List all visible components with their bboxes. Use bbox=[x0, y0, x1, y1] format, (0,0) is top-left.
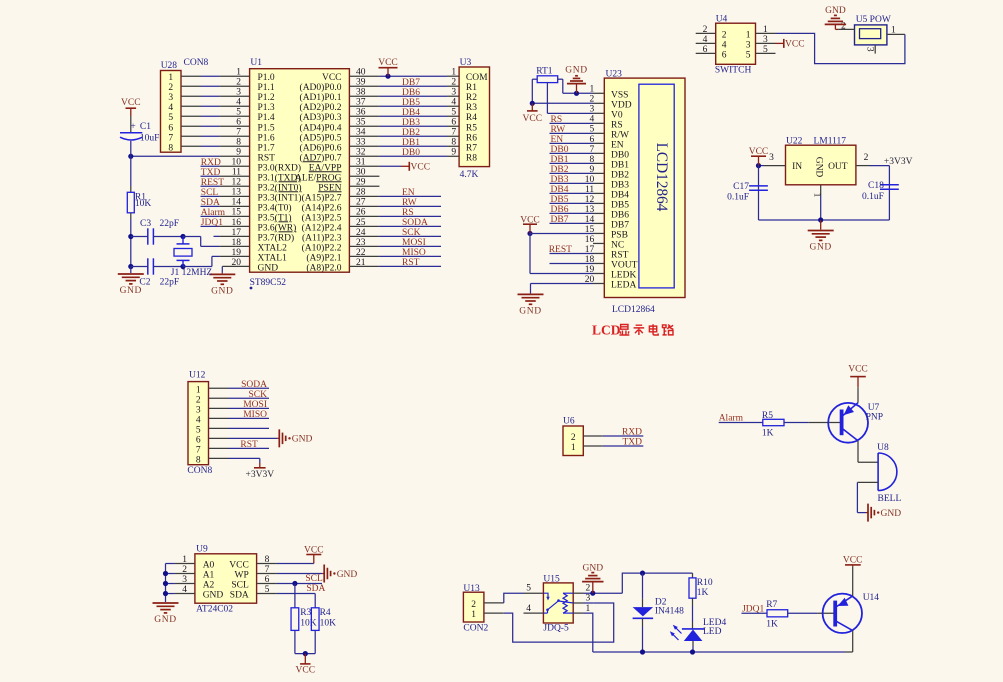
svg-text:C17: C17 bbox=[733, 182, 749, 192]
svg-text:C1: C1 bbox=[140, 122, 151, 132]
svg-text:1K: 1K bbox=[697, 588, 709, 598]
svg-text:7: 7 bbox=[236, 128, 241, 138]
svg-text:J1 12MHZ: J1 12MHZ bbox=[171, 268, 213, 278]
svg-text:SODA: SODA bbox=[241, 380, 267, 390]
svg-text:VOUT: VOUT bbox=[611, 260, 638, 270]
svg-text:GND: GND bbox=[154, 615, 176, 625]
svg-text:P1.2: P1.2 bbox=[258, 93, 275, 103]
svg-text:2: 2 bbox=[471, 600, 476, 610]
svg-text:RST: RST bbox=[402, 258, 420, 268]
svg-text:3: 3 bbox=[769, 153, 774, 163]
svg-text:PNP: PNP bbox=[866, 413, 883, 423]
svg-text:2: 2 bbox=[722, 30, 727, 40]
svg-text:P1.7: P1.7 bbox=[258, 143, 275, 153]
svg-text:2: 2 bbox=[451, 78, 456, 88]
svg-text:V0: V0 bbox=[611, 110, 623, 120]
svg-text:MOSI: MOSI bbox=[243, 400, 267, 410]
svg-text:GND: GND bbox=[258, 263, 279, 273]
svg-text:U1: U1 bbox=[250, 58, 262, 68]
svg-text:TXD: TXD bbox=[622, 438, 642, 448]
svg-text:U3: U3 bbox=[460, 58, 472, 68]
svg-text:6: 6 bbox=[236, 118, 241, 128]
svg-text:(AD2)P0.2: (AD2)P0.2 bbox=[300, 102, 342, 113]
svg-text:2: 2 bbox=[168, 83, 173, 93]
svg-text:IN: IN bbox=[792, 162, 802, 172]
svg-text:P1.6: P1.6 bbox=[258, 133, 275, 143]
svg-text:U14: U14 bbox=[863, 593, 880, 603]
svg-text:3: 3 bbox=[746, 40, 751, 50]
svg-text:(A10)P2.2: (A10)P2.2 bbox=[302, 242, 342, 253]
svg-text:22pF: 22pF bbox=[160, 278, 180, 288]
svg-text:DB5: DB5 bbox=[551, 195, 569, 205]
svg-text:JDQ1: JDQ1 bbox=[201, 218, 223, 228]
svg-text:5: 5 bbox=[236, 108, 241, 118]
svg-text:2: 2 bbox=[236, 78, 241, 88]
svg-text:P3.0(RXD): P3.0(RXD) bbox=[258, 162, 302, 173]
svg-text:DB0: DB0 bbox=[402, 148, 420, 158]
svg-text:P3.4(T0): P3.4(T0) bbox=[258, 202, 292, 213]
svg-text:OUT: OUT bbox=[828, 162, 848, 172]
svg-text:3: 3 bbox=[236, 88, 241, 98]
svg-text:VSS: VSS bbox=[611, 90, 628, 100]
svg-text:1: 1 bbox=[586, 604, 591, 614]
svg-text:GND: GND bbox=[292, 435, 313, 445]
svg-text:GND: GND bbox=[583, 563, 604, 573]
svg-text:RS: RS bbox=[611, 120, 623, 130]
svg-text:SCL: SCL bbox=[305, 574, 323, 584]
svg-text:4: 4 bbox=[236, 98, 241, 108]
svg-text:MISO: MISO bbox=[402, 248, 426, 258]
svg-text:DB2: DB2 bbox=[402, 128, 420, 138]
svg-text:EN: EN bbox=[611, 140, 624, 150]
svg-text:(A12)P2.4: (A12)P2.4 bbox=[302, 222, 342, 233]
svg-text:DB7: DB7 bbox=[611, 220, 629, 230]
svg-text:A0: A0 bbox=[203, 561, 215, 571]
svg-text:DB6: DB6 bbox=[611, 210, 629, 220]
svg-text:0.1uF: 0.1uF bbox=[727, 193, 749, 203]
svg-text:DB3: DB3 bbox=[551, 175, 569, 185]
svg-text:U6: U6 bbox=[563, 417, 575, 427]
svg-text:JDQ-5: JDQ-5 bbox=[543, 624, 569, 634]
svg-text:P3.6(WR): P3.6(WR) bbox=[258, 222, 297, 233]
svg-text:CON8: CON8 bbox=[184, 58, 209, 68]
svg-text:MOSI: MOSI bbox=[402, 238, 426, 248]
svg-text:R5: R5 bbox=[466, 123, 477, 133]
svg-text:(A11)P2.3: (A11)P2.3 bbox=[302, 232, 342, 243]
svg-text:4: 4 bbox=[168, 103, 173, 113]
svg-text:U15: U15 bbox=[543, 574, 560, 584]
svg-text:NC: NC bbox=[611, 240, 624, 250]
svg-text:(AD3)P0.3: (AD3)P0.3 bbox=[300, 112, 342, 123]
svg-text:U9: U9 bbox=[196, 545, 208, 555]
svg-text:SDA: SDA bbox=[306, 584, 325, 594]
svg-text:1: 1 bbox=[168, 73, 173, 83]
svg-text:8: 8 bbox=[451, 138, 456, 148]
svg-text:4: 4 bbox=[703, 35, 708, 45]
svg-text:LM1117: LM1117 bbox=[814, 136, 847, 146]
svg-text:U5 POW: U5 POW bbox=[856, 15, 891, 25]
svg-text:R1: R1 bbox=[466, 83, 477, 93]
svg-text:LEDK: LEDK bbox=[611, 270, 636, 280]
svg-text:LED: LED bbox=[703, 627, 722, 637]
svg-text:P1.3: P1.3 bbox=[258, 103, 275, 113]
svg-text:P3.3(INT1): P3.3(INT1) bbox=[258, 192, 302, 203]
svg-text:DB6: DB6 bbox=[402, 88, 420, 98]
svg-text:16: 16 bbox=[585, 235, 595, 245]
svg-text:REST: REST bbox=[201, 178, 224, 188]
svg-text:REST: REST bbox=[549, 245, 572, 255]
svg-text:(AD6)P0.6: (AD6)P0.6 bbox=[300, 142, 342, 153]
svg-text:(A15)P2.7: (A15)P2.7 bbox=[302, 192, 342, 203]
svg-text:8: 8 bbox=[168, 143, 173, 153]
svg-text:5: 5 bbox=[746, 50, 751, 60]
svg-text:DB2: DB2 bbox=[611, 170, 629, 180]
svg-text:8: 8 bbox=[196, 455, 201, 465]
svg-text:1: 1 bbox=[891, 25, 896, 35]
svg-text:7: 7 bbox=[168, 133, 173, 143]
svg-text:A1: A1 bbox=[203, 571, 215, 581]
svg-text:RXD: RXD bbox=[201, 158, 221, 168]
svg-text:MISO: MISO bbox=[243, 410, 267, 420]
svg-text:P1.5: P1.5 bbox=[258, 123, 275, 133]
svg-text:(A13)P2.5: (A13)P2.5 bbox=[302, 212, 342, 223]
svg-text:U7: U7 bbox=[868, 403, 880, 413]
svg-text:R4: R4 bbox=[466, 113, 477, 123]
svg-text:22pF: 22pF bbox=[160, 219, 180, 229]
svg-text:U22: U22 bbox=[786, 136, 803, 146]
svg-text:7: 7 bbox=[451, 128, 456, 138]
svg-text:GND: GND bbox=[565, 66, 587, 76]
svg-text:1: 1 bbox=[746, 30, 751, 40]
svg-text:10K: 10K bbox=[300, 619, 317, 629]
svg-text:VCC: VCC bbox=[296, 665, 316, 675]
svg-text:2: 2 bbox=[586, 583, 591, 593]
svg-text:SDA: SDA bbox=[201, 198, 220, 208]
svg-text:SODA: SODA bbox=[402, 218, 428, 228]
svg-text:1: 1 bbox=[236, 68, 241, 78]
svg-text:1: 1 bbox=[471, 610, 476, 620]
svg-text:SCL: SCL bbox=[231, 581, 249, 591]
svg-text:9: 9 bbox=[451, 148, 456, 158]
svg-text:U4: U4 bbox=[716, 15, 728, 25]
svg-text:SCK: SCK bbox=[402, 228, 421, 238]
svg-text:EN: EN bbox=[551, 135, 564, 145]
svg-text:R10: R10 bbox=[697, 578, 713, 588]
svg-text:4: 4 bbox=[722, 40, 727, 50]
svg-text:DB6: DB6 bbox=[551, 205, 569, 215]
svg-text:R8: R8 bbox=[466, 153, 477, 163]
svg-text:6: 6 bbox=[703, 45, 708, 55]
svg-text:VCC: VCC bbox=[520, 215, 540, 225]
svg-text:1: 1 bbox=[571, 443, 576, 453]
svg-text:RS: RS bbox=[551, 115, 563, 125]
svg-text:4: 4 bbox=[196, 415, 201, 425]
svg-text:DB1: DB1 bbox=[402, 138, 420, 148]
svg-text:8: 8 bbox=[236, 138, 241, 148]
svg-text:U8: U8 bbox=[877, 443, 889, 453]
svg-text:VCC: VCC bbox=[304, 545, 324, 555]
svg-text:RW: RW bbox=[551, 125, 566, 135]
svg-text:BELL: BELL bbox=[878, 494, 902, 504]
svg-text:XTAL1: XTAL1 bbox=[258, 253, 288, 263]
svg-text:PSEN: PSEN bbox=[318, 183, 341, 193]
svg-text:C2: C2 bbox=[139, 278, 150, 288]
svg-text:DB0: DB0 bbox=[611, 150, 629, 160]
svg-text:GND: GND bbox=[203, 591, 224, 601]
svg-text:1K: 1K bbox=[766, 620, 778, 630]
svg-text:R3: R3 bbox=[300, 608, 311, 618]
svg-text:R6: R6 bbox=[466, 133, 477, 143]
svg-text:AT24C02: AT24C02 bbox=[196, 604, 233, 614]
svg-text:P1.0: P1.0 bbox=[258, 73, 275, 83]
svg-text:EN: EN bbox=[402, 188, 415, 198]
svg-text:TXD: TXD bbox=[201, 168, 221, 178]
svg-text:DB5: DB5 bbox=[611, 200, 629, 210]
svg-text:5: 5 bbox=[763, 45, 768, 55]
svg-text:RW: RW bbox=[402, 198, 417, 208]
svg-text:3: 3 bbox=[763, 35, 768, 45]
svg-text:PSB: PSB bbox=[611, 230, 628, 240]
svg-text:3: 3 bbox=[586, 594, 591, 604]
svg-text:10K: 10K bbox=[135, 199, 152, 209]
svg-text:1K: 1K bbox=[762, 429, 774, 439]
svg-text:IN4148: IN4148 bbox=[655, 606, 684, 616]
svg-text:RS: RS bbox=[402, 208, 414, 218]
svg-text:4: 4 bbox=[451, 98, 456, 108]
svg-text:0.1uF: 0.1uF bbox=[862, 192, 884, 202]
svg-text:VCC: VCC bbox=[523, 114, 543, 124]
svg-text:XTAL2: XTAL2 bbox=[258, 243, 288, 253]
svg-text:LCD12864: LCD12864 bbox=[612, 305, 655, 315]
svg-text:5: 5 bbox=[196, 425, 201, 435]
svg-text:2: 2 bbox=[571, 433, 576, 443]
svg-text:+3V3V: +3V3V bbox=[246, 470, 275, 480]
svg-text:WP: WP bbox=[235, 571, 249, 581]
svg-text:GND: GND bbox=[120, 286, 142, 296]
svg-text:ST89C52: ST89C52 bbox=[250, 278, 287, 288]
svg-text:DB7: DB7 bbox=[402, 78, 420, 88]
svg-text:COM: COM bbox=[466, 73, 488, 83]
svg-text:R7: R7 bbox=[466, 143, 477, 153]
svg-text:VCC: VCC bbox=[785, 40, 805, 50]
svg-text:RST: RST bbox=[611, 250, 629, 260]
svg-text:C18: C18 bbox=[868, 181, 884, 191]
svg-text:(A9)P2.1: (A9)P2.1 bbox=[306, 252, 341, 263]
svg-text:DB5: DB5 bbox=[402, 98, 420, 108]
svg-text:1: 1 bbox=[451, 68, 456, 78]
svg-text:3: 3 bbox=[168, 93, 173, 103]
svg-text:R2: R2 bbox=[466, 93, 477, 103]
svg-text:U23: U23 bbox=[606, 70, 623, 80]
svg-text:2: 2 bbox=[864, 153, 869, 163]
svg-text:VCC: VCC bbox=[843, 555, 863, 565]
svg-text:SCL: SCL bbox=[201, 188, 219, 198]
svg-text:CON8: CON8 bbox=[187, 466, 212, 476]
svg-text:P3.2(INT0): P3.2(INT0) bbox=[258, 182, 302, 193]
svg-text:VCC: VCC bbox=[322, 73, 342, 83]
svg-text:P3.5(T1): P3.5(T1) bbox=[258, 212, 292, 223]
svg-text:VCC: VCC bbox=[749, 147, 769, 157]
svg-text:R7: R7 bbox=[766, 600, 777, 610]
svg-text:RT1: RT1 bbox=[536, 67, 553, 77]
svg-text:EA/VPP: EA/VPP bbox=[309, 163, 342, 173]
svg-text:Alarm: Alarm bbox=[201, 208, 226, 218]
svg-text:5: 5 bbox=[168, 113, 173, 123]
svg-text:10uF: 10uF bbox=[140, 133, 160, 143]
svg-text:GND: GND bbox=[337, 570, 358, 580]
svg-text:VDD: VDD bbox=[611, 100, 632, 110]
svg-text:DB4: DB4 bbox=[551, 185, 569, 195]
svg-text:3: 3 bbox=[196, 405, 201, 415]
svg-text:2: 2 bbox=[841, 22, 846, 32]
svg-text:DB4: DB4 bbox=[402, 108, 420, 118]
svg-text:SCK: SCK bbox=[249, 390, 268, 400]
svg-text:LCD12864: LCD12864 bbox=[653, 143, 670, 212]
svg-text:VCC: VCC bbox=[411, 162, 431, 172]
svg-text:4: 4 bbox=[526, 604, 531, 614]
svg-text:10K: 10K bbox=[320, 619, 337, 629]
svg-text:DB1: DB1 bbox=[551, 155, 569, 165]
svg-text:+: + bbox=[130, 122, 135, 132]
svg-text:1: 1 bbox=[763, 25, 768, 35]
svg-text:RXD: RXD bbox=[622, 428, 642, 438]
svg-text:SDA: SDA bbox=[230, 591, 249, 601]
svg-text:3: 3 bbox=[864, 47, 874, 52]
svg-text:SWITCH: SWITCH bbox=[715, 66, 752, 76]
svg-text:U13: U13 bbox=[463, 584, 480, 594]
svg-text:ALE/PROG: ALE/PROG bbox=[295, 173, 342, 183]
svg-text:2: 2 bbox=[703, 25, 708, 35]
svg-text:+3V3V: +3V3V bbox=[884, 157, 913, 167]
svg-text:DB3: DB3 bbox=[611, 180, 629, 190]
svg-text:LEDA: LEDA bbox=[611, 280, 636, 290]
svg-text:(AD4)P0.4: (AD4)P0.4 bbox=[300, 122, 342, 133]
svg-text:DB2: DB2 bbox=[551, 165, 569, 175]
svg-text:6: 6 bbox=[168, 123, 173, 133]
svg-text:6: 6 bbox=[451, 118, 456, 128]
svg-text:2: 2 bbox=[196, 395, 201, 405]
svg-text:R3: R3 bbox=[466, 103, 477, 113]
svg-text:5: 5 bbox=[451, 108, 456, 118]
svg-text:R5: R5 bbox=[762, 411, 773, 421]
svg-text:CON2: CON2 bbox=[463, 624, 488, 634]
svg-text:(A14)P2.6: (A14)P2.6 bbox=[302, 202, 342, 213]
svg-text:RST: RST bbox=[258, 153, 276, 163]
svg-text:GND: GND bbox=[825, 6, 846, 16]
svg-text:(AD1)P0.1: (AD1)P0.1 bbox=[300, 92, 342, 103]
svg-text:(AD5)P0.5: (AD5)P0.5 bbox=[300, 132, 342, 143]
svg-text:DB7: DB7 bbox=[551, 215, 569, 225]
svg-text:GND: GND bbox=[881, 509, 902, 519]
svg-text:VCC: VCC bbox=[848, 365, 868, 375]
svg-text:5: 5 bbox=[526, 583, 531, 593]
svg-text:P1.1: P1.1 bbox=[258, 83, 275, 93]
svg-text:U28: U28 bbox=[161, 61, 178, 71]
svg-text:GND: GND bbox=[519, 307, 541, 317]
svg-text:GND: GND bbox=[211, 287, 233, 297]
svg-text:C3: C3 bbox=[140, 219, 151, 229]
svg-text:RST: RST bbox=[240, 440, 258, 450]
svg-text:A2: A2 bbox=[203, 581, 215, 591]
svg-text:VCC: VCC bbox=[229, 561, 249, 571]
svg-text:P1.4: P1.4 bbox=[258, 113, 275, 123]
svg-text:DB1: DB1 bbox=[611, 160, 629, 170]
svg-text:(AD7)P0.7: (AD7)P0.7 bbox=[300, 152, 342, 163]
svg-text:1: 1 bbox=[196, 385, 201, 395]
svg-text:P3.7(RD): P3.7(RD) bbox=[258, 232, 295, 243]
svg-text:R4: R4 bbox=[320, 608, 331, 618]
svg-text:4.7K: 4.7K bbox=[460, 170, 479, 180]
svg-text:7: 7 bbox=[196, 445, 201, 455]
svg-text:GND: GND bbox=[810, 243, 832, 253]
svg-text:GND: GND bbox=[814, 157, 824, 178]
svg-text:DB4: DB4 bbox=[611, 190, 629, 200]
svg-text:(A8)P2.0: (A8)P2.0 bbox=[306, 262, 341, 273]
svg-text:R/W: R/W bbox=[611, 130, 629, 140]
svg-text:3: 3 bbox=[451, 88, 456, 98]
svg-text:6: 6 bbox=[196, 435, 201, 445]
svg-text:VCC: VCC bbox=[378, 58, 398, 68]
svg-text:DB3: DB3 bbox=[402, 118, 420, 128]
svg-text:DB0: DB0 bbox=[551, 145, 569, 155]
svg-text:VCC: VCC bbox=[121, 98, 141, 108]
svg-text:U12: U12 bbox=[189, 370, 206, 380]
svg-text:LCD: LCD bbox=[592, 323, 621, 338]
svg-text:(AD0)P0.0: (AD0)P0.0 bbox=[300, 82, 342, 93]
svg-text:6: 6 bbox=[722, 50, 727, 60]
